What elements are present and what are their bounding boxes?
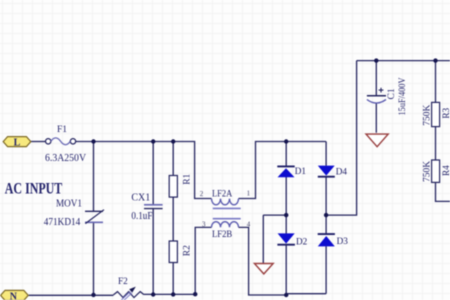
svg-text:3: 3 <box>202 220 206 228</box>
svg-text:F2: F2 <box>118 276 128 286</box>
svg-text:MOV1: MOV1 <box>56 199 82 210</box>
svg-text:R1: R1 <box>183 173 193 184</box>
svg-text:2: 2 <box>200 190 204 198</box>
svg-text:F1: F1 <box>57 125 67 135</box>
svg-text:750K: 750K <box>422 105 432 126</box>
svg-text:1: 1 <box>247 190 251 198</box>
svg-text:D4: D4 <box>336 166 348 176</box>
svg-text:4: 4 <box>247 220 251 228</box>
svg-text:AC INPUT: AC INPUT <box>5 180 63 197</box>
svg-text:LF2B: LF2B <box>212 229 232 239</box>
svg-text:LF2A: LF2A <box>212 188 233 198</box>
svg-text:CX1: CX1 <box>131 193 150 204</box>
svg-text:D2: D2 <box>296 237 308 247</box>
svg-text:L: L <box>14 138 21 149</box>
svg-text:471KD14: 471KD14 <box>44 217 81 228</box>
svg-text:D1: D1 <box>295 166 307 176</box>
svg-text:15uF/400V: 15uF/400V <box>397 77 407 115</box>
svg-text:R4: R4 <box>441 165 450 176</box>
svg-text:6.3A250V: 6.3A250V <box>45 152 86 164</box>
svg-text:0.1uF: 0.1uF <box>131 211 152 222</box>
svg-text:R2: R2 <box>183 245 193 256</box>
svg-text:C1: C1 <box>387 88 397 99</box>
svg-text:D3: D3 <box>337 236 349 246</box>
svg-text:750K: 750K <box>422 161 432 182</box>
svg-text:N: N <box>10 291 18 300</box>
svg-text:R3: R3 <box>441 107 450 118</box>
